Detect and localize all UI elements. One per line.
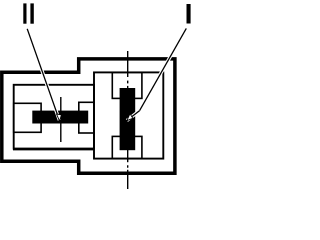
- leader line I: [127, 28, 187, 120]
- centerline of contact II: [60, 97, 62, 142]
- main vertical centerline (dash-dot): [127, 51, 129, 189]
- label II: [23, 3, 26, 23]
- contact bar I (vertical): [120, 88, 136, 150]
- contact bar II (horizontal): [32, 111, 88, 124]
- leader line II: [27, 29, 61, 121]
- upper collar: [112, 72, 142, 98]
- label I: [187, 4, 191, 24]
- left cavity bore: [14, 85, 94, 149]
- right contact socket: [79, 102, 94, 133]
- left contact socket: [14, 103, 41, 132]
- right cavity bore: [94, 72, 163, 158]
- lower collar: [112, 136, 142, 158]
- outer housing outline: [2, 59, 175, 173]
